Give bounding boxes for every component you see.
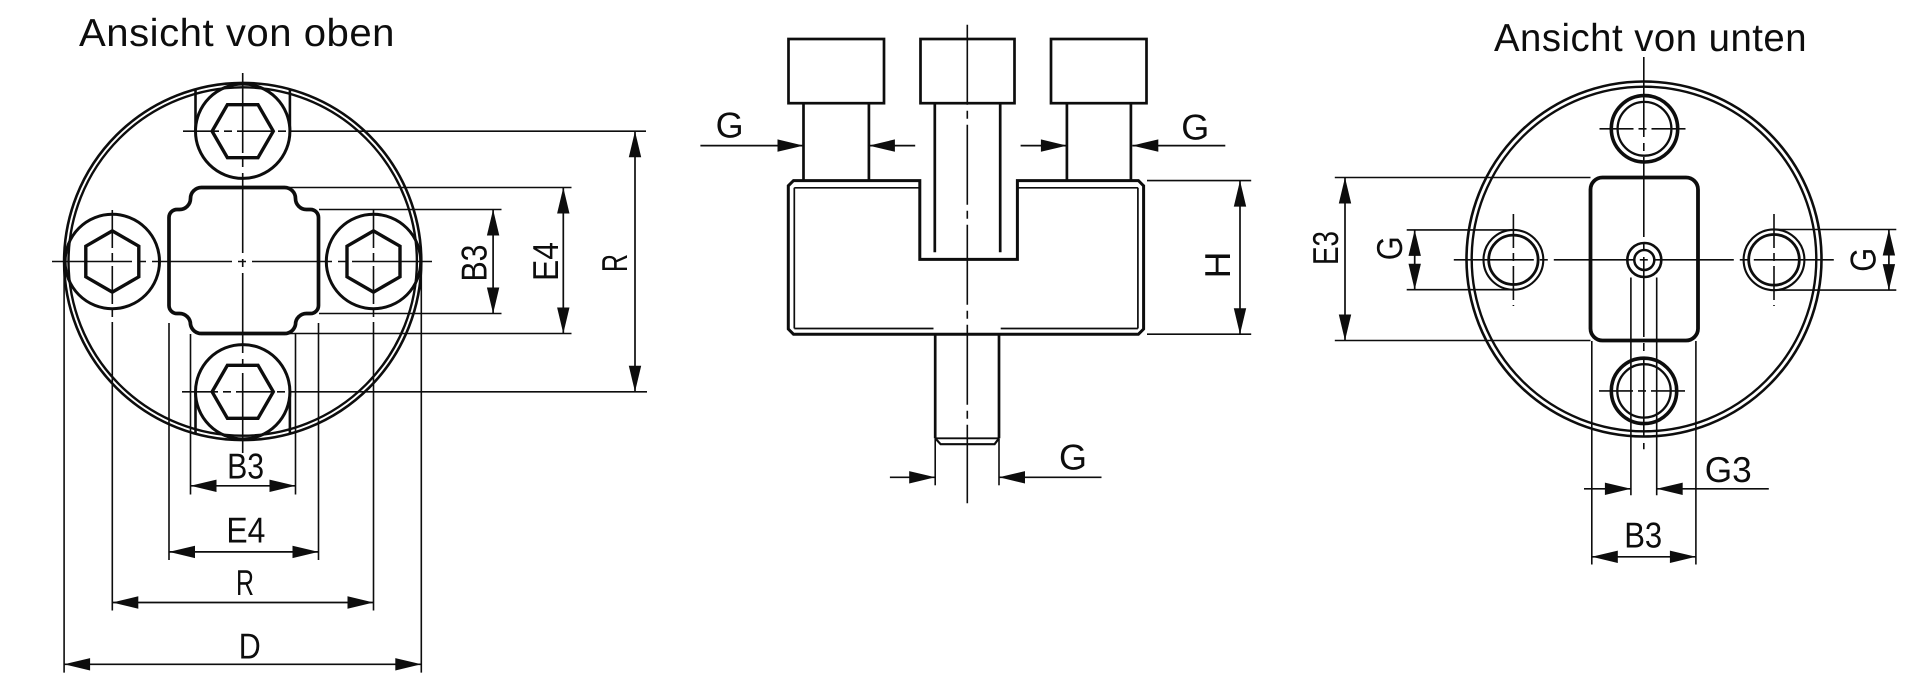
svg-text:B3: B3 — [1624, 515, 1662, 556]
right screw head circle — [326, 214, 420, 308]
svg-text:B3: B3 — [454, 245, 495, 282]
right screw hex socket — [347, 231, 400, 292]
left screw head circle — [65, 214, 159, 308]
dim E4 bottom — [169, 551, 319, 553]
dim G top-right — [1021, 145, 1067, 147]
left hole outer — [1484, 230, 1544, 290]
right hole inner — [1749, 234, 1800, 285]
horizontal center line — [1454, 259, 1835, 261]
D ext lines — [63, 262, 65, 673]
dim D bottom — [64, 663, 421, 665]
left screw shaft — [802, 103, 805, 180]
center screw shaft — [933, 103, 936, 252]
R ext line bottom / bottom screw center line — [182, 391, 315, 393]
stud below plate — [934, 334, 937, 438]
top screw hex socket — [212, 105, 273, 158]
horizontal center line — [52, 261, 434, 263]
top hole inner — [1618, 102, 1672, 156]
left hole inner — [1489, 235, 1538, 284]
svg-text:G: G — [1369, 236, 1410, 260]
top hole outer — [1611, 96, 1677, 162]
flange inner circle — [1472, 87, 1817, 432]
E3 ext lines — [1335, 177, 1591, 179]
svg-text:Ansicht von oben: Ansicht von oben — [79, 12, 395, 55]
svg-text:E3: E3 — [1305, 231, 1346, 265]
dim G left — [1414, 230, 1416, 290]
G3 ext lines — [1630, 278, 1632, 496]
dim H — [1239, 181, 1241, 335]
center tapped hole outer — [1627, 243, 1661, 277]
G bottom ext lines — [934, 438, 936, 485]
flange outer circle — [1467, 82, 1822, 437]
E4 vertical ext lines — [288, 187, 572, 189]
R ext line top / top screw center line — [183, 130, 315, 132]
B3 bottom ext lines — [190, 334, 192, 495]
G right ext lines — [1774, 229, 1896, 231]
svg-text:Ansicht von unten: Ansicht von unten — [1494, 17, 1807, 60]
bottom hole outer — [1611, 358, 1676, 423]
vertical center line — [1643, 57, 1645, 449]
bottom screw head circle — [196, 345, 290, 439]
right hole vertical center line — [1773, 214, 1775, 306]
G left ext lines — [1407, 229, 1514, 231]
bottom screw slot walls — [194, 392, 197, 433]
right hole outer — [1744, 229, 1805, 290]
flange inner circle — [69, 87, 417, 435]
H ext lines — [1147, 180, 1251, 182]
left hole vertical center line — [1512, 214, 1514, 306]
left screw head — [789, 39, 885, 103]
right screw head — [1051, 39, 1147, 103]
svg-text:G3: G3 — [1705, 449, 1752, 490]
dim G3 — [1584, 488, 1631, 490]
dim E3 — [1344, 178, 1346, 341]
dim R vertical — [634, 131, 636, 392]
top screw slot walls — [194, 90, 197, 131]
right screw shaft — [1066, 103, 1069, 180]
E4 bottom ext lines — [168, 323, 170, 560]
svg-text:D: D — [239, 626, 261, 667]
svg-text:E4: E4 — [226, 510, 265, 551]
center line — [966, 25, 968, 504]
center tapped hole inner — [1634, 250, 1654, 270]
bottom hole horizontal center line — [1599, 390, 1689, 392]
center cross-shaped boss — [169, 188, 319, 334]
svg-text:G: G — [1842, 248, 1883, 272]
top hole horizontal center line — [1600, 128, 1690, 130]
vertical center line — [242, 73, 244, 454]
dim B3 bottom — [191, 485, 296, 487]
plate top chamfer lines — [794, 187, 920, 189]
top screw head circle — [196, 84, 290, 178]
left screw hex socket — [86, 231, 139, 292]
svg-text:G: G — [716, 105, 744, 146]
plate left chamfer line — [793, 188, 795, 329]
R ext left / left screw center line — [111, 210, 113, 330]
B3 ext lines — [1591, 341, 1593, 565]
dim G top-left — [700, 145, 803, 147]
bottom hole inner — [1617, 364, 1670, 417]
dim E4 vertical — [562, 188, 564, 334]
plate body with center slot — [788, 181, 1143, 335]
central boss rectangle — [1591, 178, 1699, 341]
plate bottom chamfer lines — [794, 328, 933, 330]
svg-text:R: R — [236, 562, 254, 603]
svg-text:G: G — [1059, 437, 1087, 478]
bottom screw hex socket — [212, 365, 273, 418]
dim R bottom — [112, 602, 373, 604]
R ext right / right screw center line — [373, 210, 375, 330]
svg-text:R: R — [594, 254, 635, 272]
svg-text:B3: B3 — [227, 445, 264, 486]
B3 vertical ext lines — [319, 209, 502, 211]
stud thread end line — [935, 437, 999, 439]
svg-text:G: G — [1181, 107, 1209, 148]
dim B3 — [1592, 556, 1696, 558]
flange outer circle — [64, 83, 421, 440]
stud chamfered tip — [935, 438, 999, 444]
plate right chamfer line — [1137, 188, 1139, 329]
svg-text:E4: E4 — [525, 242, 566, 281]
dim B3 vertical — [492, 210, 494, 314]
dim G right — [1888, 230, 1890, 291]
svg-text:H: H — [1197, 252, 1238, 279]
dim G bottom — [890, 476, 935, 478]
center screw head — [921, 39, 1015, 103]
